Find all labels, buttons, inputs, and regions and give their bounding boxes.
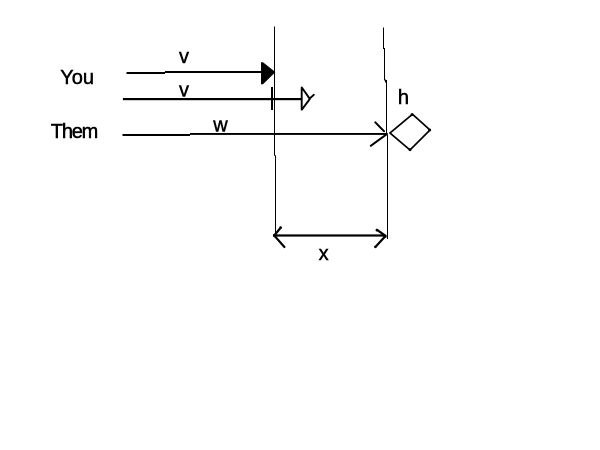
svg-text:Them: Them — [51, 121, 98, 143]
svg-text:h: h — [398, 87, 409, 109]
svg-text:x: x — [319, 243, 329, 265]
svg-text:v: v — [179, 80, 189, 102]
svg-text:w: w — [212, 115, 228, 137]
svg-text:v: v — [179, 46, 189, 68]
svg-text:You: You — [60, 67, 94, 89]
